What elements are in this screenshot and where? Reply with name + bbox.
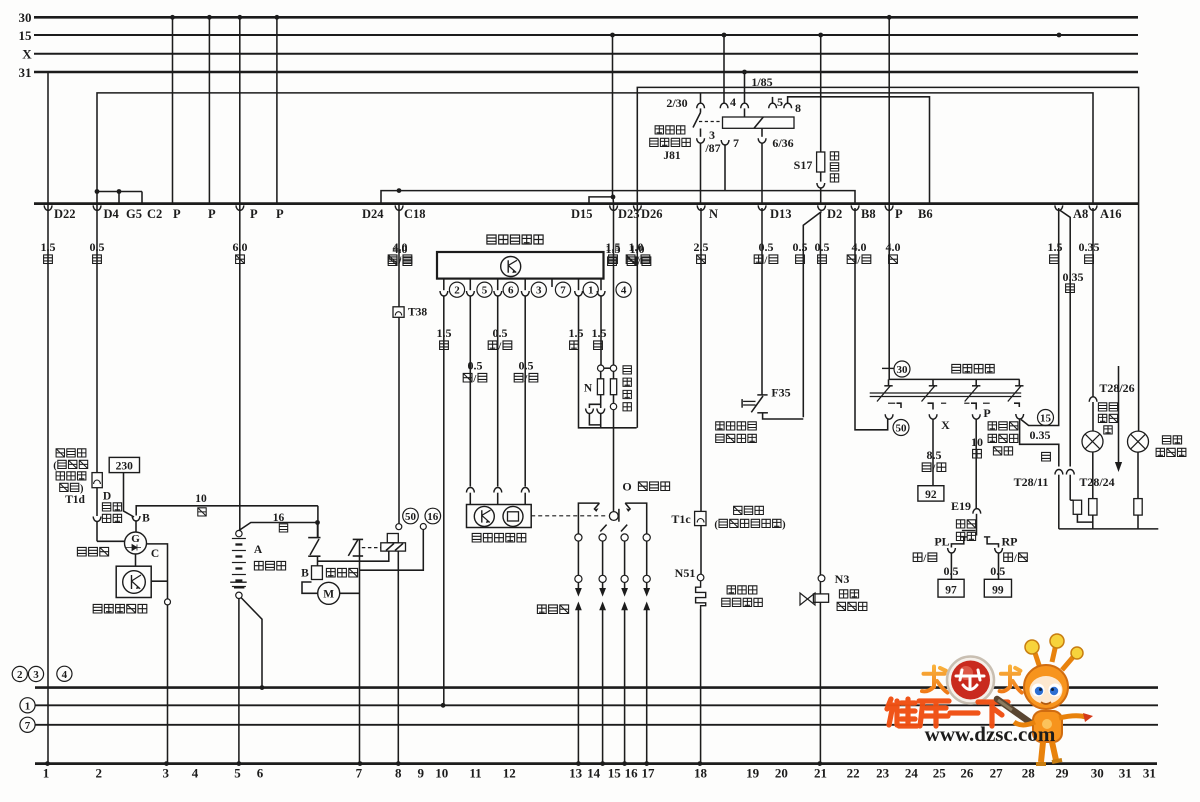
labels 0.5 0.5 [944,564,1006,578]
terminal labels on main bus [54,207,1122,221]
junction dot on bus 31 for 1/85 [742,70,747,75]
svg-text:20: 20 [775,766,788,781]
label F35 [771,386,790,400]
svg-text:7: 7 [356,766,363,781]
label 点火开关 (ignition switch) [952,364,994,373]
generator G circle [125,532,147,554]
svg-text:30: 30 [19,10,32,25]
svg-text:O: O [622,480,631,494]
magnifier with 芯 [947,657,994,704]
svg-text:8: 8 [395,766,402,781]
svg-text:P: P [173,207,181,221]
svg-text:N3: N3 [835,572,850,586]
box 99 [984,579,1011,597]
wire bus15 to relay pin 4 [723,35,725,103]
svg-text:): ) [782,520,786,531]
label O 分电器 [622,480,669,494]
label 1/85 [751,75,772,89]
label 火花塞 [537,605,568,614]
resistor to ground (left) [1070,475,1093,522]
rotor gap ticks columns 2 3 [600,525,627,532]
voltage regulator box with transistor [116,566,151,597]
svg-text:97: 97 [945,585,957,597]
svg-text:www.dzsc.com: www.dzsc.com [925,722,1056,746]
bottom bus junction dots [45,761,401,766]
igniter pin wire labels [437,326,607,385]
svg-text:13: 13 [569,766,583,781]
维库一下 big orange characters [887,699,1008,726]
stop switch blade [962,514,977,536]
svg-text:8: 8 [795,101,801,115]
igniter pin stubs and cups [440,279,605,296]
label 连接器(位于仪表盘右后方) T1d [53,449,88,506]
label 电压调节器 [93,604,147,613]
label 进气预 热继电器 J81 [650,126,691,162]
svg-text:230: 230 [116,461,134,473]
svg-text:23: 23 [876,766,890,781]
svg-text:1.5: 1.5 [1048,240,1063,254]
ignition switch top rail [889,378,1020,380]
svg-text:B8: B8 [861,207,876,221]
wire regulator right to C wire [151,580,167,582]
dashed actuator link blade2 to solenoid coil [362,547,381,549]
svg-text:5: 5 [777,95,783,109]
wire bus31 to relay pin 1/85 [744,72,746,103]
wire 10 red from battery to generator B+ [132,506,318,533]
svg-text:T38: T38 [408,307,427,319]
wire 230 box down to generator B [124,473,135,517]
svg-text:D2: D2 [827,207,842,221]
svg-text:N51: N51 [675,566,696,580]
wire P feeds from bus 30 [173,17,277,203]
box 97 [938,579,964,597]
svg-text:50: 50 [405,511,417,523]
box 92 [918,486,944,501]
mascot robot [997,634,1093,764]
wire 6.0 red: bus30 P terminal down to battery positive [239,17,241,530]
svg-text:30: 30 [897,364,909,376]
wire N51 down to ground bus D [698,609,703,766]
svg-text:29: 29 [1056,766,1070,781]
label 停车 开关 [956,520,975,541]
label C [151,548,159,560]
label T1c [671,512,691,526]
svg-text:16: 16 [273,512,285,524]
svg-text:17: 17 [642,766,656,781]
circled 50 at switch [893,420,909,436]
ignition coil secondary winding box [610,371,616,394]
hall sender box 霍尔传感器 [467,505,532,528]
solenoid valve N3 [800,575,829,766]
switch blades with ticks [877,379,1024,401]
starter solenoid contact blade 1 [308,538,320,557]
ground bus D (thick bottom) [35,762,1157,765]
N51 terminal node [697,574,704,581]
switch contact hooks and dashes [888,403,1019,409]
box 230 (dash warning lamp) [109,457,139,472]
svg-text:S17: S17 [794,158,813,172]
svg-text:X: X [941,418,950,432]
svg-text:0.35: 0.35 [1063,270,1084,284]
svg-text:2: 2 [95,766,102,781]
wire D26 1.0 red/black down to coil bottom rail [636,204,638,428]
label 熔断器 vertical [830,152,838,182]
svg-text:P: P [208,207,216,221]
svg-text:2/30: 2/30 [666,96,687,110]
wire D15 step to D23 junction [589,195,615,204]
label 进气预热 温度开关 [716,422,757,443]
coil low terminal cups and bridge [586,395,605,428]
wire generator bottom to regulator [135,554,137,566]
wire T28/11 down to ground rail [1058,475,1060,529]
terminal cups on main bus [44,205,1097,210]
wire D2 straight down to valve N3 [819,212,821,575]
svg-text:G: G [131,533,140,545]
wire A8 1.5 black down to switch 15 cup [1021,208,1059,426]
wire solenoid winding to starter pole [318,551,389,561]
label 3 /87 [704,128,720,155]
wire P terminal 10 grey down to E19 [975,419,977,508]
svg-text:9: 9 [417,766,424,781]
svg-text:8.5: 8.5 [927,448,942,462]
svg-text:D23: D23 [618,207,640,221]
wire D22 brown 1.5 from bus 31 to bottom ground bus [47,72,49,764]
svg-text:21: 21 [814,766,827,781]
bus 30 (top supply rail) [19,10,1139,25]
svg-text:16: 16 [625,766,639,781]
rail 1 with circled 1 [20,698,1158,713]
charge lamp resistor [1089,452,1097,529]
svg-text:15: 15 [1040,412,1052,424]
starter pole wire blade2 down to ground bus D [359,539,361,763]
svg-text:30: 30 [1091,766,1104,781]
wire D23 1.5 black: bus15 through bus to coil [613,35,614,365]
svg-text:6/36: 6/36 [772,136,793,150]
label P [983,406,990,420]
relay switch blade 2/30 to 3/87 [693,108,701,127]
svg-text:B: B [142,513,150,525]
svg-text:N: N [584,383,593,395]
label 点火线圈 vertical [623,366,631,411]
svg-text:15: 15 [19,28,33,43]
label T38 [408,307,427,319]
wire gauge labels [41,240,1100,293]
label 电子点火器 [487,235,543,244]
bridge jumper D4-G5-C2 [95,189,142,204]
svg-text:J81: J81 [663,150,681,162]
wire L2: D4 to relay 2/30 and A16 [97,93,1093,204]
wire generator C to voltage regulator net [147,544,168,599]
circled 15 at switch [1038,410,1054,426]
label T28/26 [1099,381,1134,395]
svg-text:99: 99 [992,585,1004,597]
svg-text:T28/11: T28/11 [1014,475,1049,489]
relay bottom pin 7 [721,140,729,191]
svg-text:1/85: 1/85 [751,75,772,89]
label 火花塞 抗干扰 插头 [988,422,1018,455]
ignition coil terminals [598,365,617,371]
ignition coil primary winding box [597,371,603,394]
relay bottom pin 3/87 [697,129,705,144]
wire C18 4.0 red/black down through T38 to solenoid 50 [398,204,400,524]
terminal 16 node circle [420,524,426,530]
label 6/36 [772,136,793,150]
bus X [22,47,1138,62]
svg-text:3: 3 [163,766,170,781]
battery positive terminal [236,530,242,536]
label 连接器 (位于蓄电池侧) [714,506,786,530]
label X [941,418,950,432]
wire 16 black battery+ to solenoid junction [239,520,320,530]
continuation arrow (X circuit) [1115,366,1122,472]
wire blade1 pole [317,523,319,566]
wire starter M left loop to brush box [302,582,318,593]
main terminal bus [34,202,1138,205]
starter solenoid winding (hatched box) [381,534,406,552]
elevated wire D24 to B8 [381,188,855,203]
svg-text:1.5: 1.5 [569,326,584,340]
svg-text:D15: D15 [571,207,593,221]
label 霍尔传感器 [472,533,526,542]
wires pins 5 6 3 down to hall sender caps [470,296,525,487]
svg-text:/87: /87 [704,141,720,155]
svg-text:4: 4 [730,95,736,109]
svg-text:31: 31 [1143,766,1156,781]
svg-text:26: 26 [960,766,974,781]
distributor cap rail right [625,503,647,537]
connector T1c [695,511,706,525]
wire battery negative to ground bus D [238,599,240,764]
relay bottom pin 6/36 [758,128,766,203]
wire battery negative branch to bus A [241,598,262,688]
label 油压 指示灯 [1156,436,1186,457]
svg-text:18: 18 [694,766,708,781]
svg-text:T28/24: T28/24 [1079,475,1114,489]
svg-text:7: 7 [560,285,566,297]
label 充电 指示 灯 [1098,403,1117,434]
svg-text:4.0: 4.0 [886,240,901,254]
svg-text:3: 3 [536,285,542,297]
wire A8 branch 0.35 black [1060,210,1071,467]
svg-text:C: C [151,548,159,560]
svg-text:0.35: 0.35 [1030,428,1051,442]
label S17 [794,158,813,172]
oil lamp resistor [1134,452,1142,529]
svg-text:2: 2 [17,669,23,681]
glow resistor element (square wave) [696,581,706,609]
svg-text:11: 11 [469,766,481,781]
watermark: orange brand mark 找芯片 / 维库一下 / www.dzsc.com with mascot [887,634,1093,764]
label 0.35 黑 (switch wire) [1030,428,1051,461]
label N (coil) [584,383,593,395]
dashed actuator to relay coil [699,121,723,123]
wire igniter aux pin down to coil terminal [600,296,602,365]
junction dots on bus 30 [170,15,892,20]
switch double bar [870,393,1022,397]
lamp ground rail [1059,528,1159,530]
distributor rotor [609,509,619,522]
svg-text:24: 24 [905,766,919,781]
svg-text:0.5: 0.5 [493,326,508,340]
starter solenoid contact blade 2 [348,539,363,556]
switch output cups 50 X P 15 [885,414,1023,419]
label 1.5黑 1.0红/黑 at igniter right [606,242,651,269]
svg-text:P: P [250,207,258,221]
wire D4 blue 0.5 down to connector T1d [96,204,98,473]
svg-text:B: B [301,568,309,580]
spark plug wires with up arrows to ground bus [575,602,650,766]
track number labels [43,766,1156,781]
svg-text:M: M [323,589,334,601]
svg-text:): ) [80,484,84,495]
thermo switch F35 [742,395,803,419]
oil pressure lamp 油压指示灯 [1128,431,1149,452]
svg-text:1: 1 [43,766,50,781]
labels PL RP [934,535,1017,549]
wire L1: D26 riser to oil pressure lamp feed [637,87,1138,431]
wire T1c to N51 [700,526,702,575]
svg-text:31: 31 [1119,766,1132,781]
label 进气预 热电阻器 [722,586,763,607]
labels 灰/黑 灰/红 [913,553,1027,565]
junction dots on bus 15 [610,33,1061,38]
svg-text:15: 15 [608,766,622,781]
electronic igniter box with K symbol [437,252,604,279]
svg-text:0.5: 0.5 [793,240,808,254]
svg-text:PL: PL [934,535,949,549]
circled 30 with tick [882,361,910,377]
battery bottom plates and negative terminal [230,582,247,598]
label A 蓄电池 [254,544,286,570]
svg-text:RP: RP [1002,535,1018,549]
dashed line hall sender to distributor rotor [531,515,607,517]
wire L3: relay pin 8 to B6 [788,97,930,204]
bus 15 [19,28,1139,43]
circled pin numbers 2 5 6 3 7 1 4 [449,282,631,297]
svg-text:(: ( [53,461,57,472]
svg-text:A8: A8 [1073,207,1088,221]
hall sender connector caps [467,488,530,505]
coil HT terminal node [610,395,616,410]
label 8.5 黑/黄 [922,448,946,475]
label 4.0 红/黑 (C18 wire) [388,242,412,269]
svg-text:4.0: 4.0 [393,242,408,256]
T28/11 connector caps [1055,469,1074,474]
wire D2 splits: diagonal to F35 branch [803,212,821,418]
battery plates 蓄电池 [232,539,246,587]
wire terminal16 down to starter pole rail [360,530,424,571]
wire starter M right to ground bus D [340,592,360,594]
wire C down to ground bus D [167,605,169,764]
svg-text:3: 3 [33,669,39,681]
wire coil HT down to distributor rotor [613,410,615,512]
wire X terminal 8.5 black/yellow down to plug 92 [932,419,934,486]
label B [142,513,150,525]
svg-text:27: 27 [990,766,1004,781]
svg-text:6: 6 [257,766,264,781]
wire pin 1/85 to coil top [744,108,746,117]
wire solenoid winding down to ground bus D [397,551,399,764]
wires to boxes 97 99 [951,553,998,580]
svg-text:3: 3 [709,128,715,142]
svg-text:D4: D4 [104,207,120,221]
svg-text:5: 5 [234,766,241,781]
wire A16 0.35 blue down to charge lamp [1089,208,1097,431]
svg-text:92: 92 [925,489,937,501]
svg-text:4: 4 [62,669,68,681]
svg-text:C18: C18 [404,207,426,221]
terminal 50 node circle [396,524,402,530]
label 10 灰 [971,435,983,458]
label 发电机 [77,547,108,556]
svg-text:19: 19 [746,766,760,781]
ground bus A (thick) [35,685,1158,690]
svg-text:B6: B6 [918,207,933,221]
E19 connector cap [973,509,981,514]
svg-text:P: P [276,207,284,221]
svg-text:X: X [22,47,32,62]
svg-text:0.35: 0.35 [1079,240,1100,254]
svg-text:D24: D24 [362,207,384,221]
starter motor M circle [318,582,340,604]
svg-text:16: 16 [427,511,439,523]
svg-text:(: ( [714,520,718,531]
label E19 [951,499,971,513]
svg-text:10: 10 [971,435,983,449]
svg-text:D22: D22 [54,207,76,221]
connector T38 [393,307,404,318]
svg-text:12: 12 [503,766,516,781]
stop switch contacts PL RP [948,537,1003,553]
svg-text:2: 2 [454,285,460,297]
svg-text:5: 5 [482,285,488,297]
svg-text:P: P [983,406,990,420]
svg-text:0.5: 0.5 [815,240,830,254]
svg-text:1: 1 [25,700,31,712]
svg-text:10: 10 [195,493,207,505]
wire pin 3/87 down to N terminal [700,143,702,204]
label B 起动机 [301,568,357,580]
svg-text:10: 10 [435,766,448,781]
relay top pin caps 2/30 4 1/85 5 8 [697,97,792,108]
svg-text:4.0: 4.0 [852,240,867,254]
circled 16 label [425,508,441,524]
svg-text:C2: C2 [147,207,162,221]
bus 31 [19,65,1139,80]
label 怠速 截止阀 [837,590,867,611]
svg-text:F35: F35 [771,386,790,400]
svg-text:25: 25 [933,766,947,781]
wire pin2 brown down to rail 1 [441,296,446,708]
svg-text:A: A [254,544,263,556]
circled 50 label [403,508,419,524]
wire B8 4.0 down and into switch 50 [855,208,888,430]
svg-text:N: N [709,207,718,221]
wire P: bus 30 to ignition switch input [888,17,890,379]
svg-text:4: 4 [621,285,627,297]
label T28/11 [1014,475,1049,489]
svg-text:7: 7 [733,136,739,150]
svg-text:T28/26: T28/26 [1099,381,1134,395]
node circle on C wire [165,599,171,605]
svg-text:D: D [103,491,111,503]
distributor cap rail left [578,503,599,537]
label N3 [835,572,850,586]
svg-text:T1c: T1c [671,512,691,526]
svg-text:E19: E19 [951,499,971,513]
svg-text:D26: D26 [641,207,663,221]
svg-text:1: 1 [588,285,594,297]
